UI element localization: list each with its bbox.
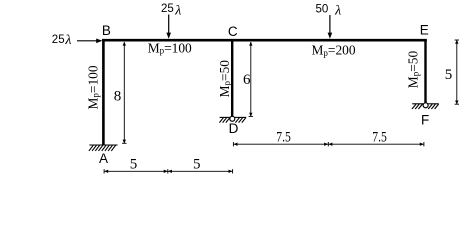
load 25λ vertical on BC bbox=[168, 15, 170, 35]
svg-text:Mp=200: Mp=200 bbox=[312, 43, 356, 58]
svg-text:λ: λ bbox=[64, 33, 71, 48]
load 50λ vertical on CE bbox=[329, 15, 331, 35]
svg-text:Mp=100: Mp=100 bbox=[148, 41, 192, 56]
svg-text:7.5: 7.5 bbox=[372, 129, 387, 145]
svg-text:5: 5 bbox=[445, 67, 453, 83]
svg-text:5: 5 bbox=[193, 157, 201, 173]
svg-text:25: 25 bbox=[52, 34, 65, 46]
svg-text:6: 6 bbox=[243, 72, 251, 88]
svg-text:50: 50 bbox=[316, 3, 329, 15]
svg-text:Mp=100: Mp=100 bbox=[85, 65, 100, 109]
column A-B bbox=[102, 39, 105, 145]
fixed support at A bbox=[89, 145, 118, 151]
svg-text:Mp=50: Mp=50 bbox=[405, 51, 420, 89]
column C-D bbox=[231, 39, 233, 116]
pin support at F bbox=[412, 104, 439, 109]
dimension 6 (middle column) bbox=[249, 42, 253, 116]
beam B-C-E bbox=[102, 39, 427, 42]
svg-text:25: 25 bbox=[161, 3, 174, 15]
dimension 8 (left column) bbox=[122, 42, 126, 143]
svg-text:F: F bbox=[421, 113, 429, 128]
svg-text:E: E bbox=[420, 22, 429, 37]
svg-text:7.5: 7.5 bbox=[276, 129, 291, 145]
pin support at D bbox=[219, 117, 246, 122]
svg-text:A: A bbox=[99, 151, 108, 166]
load 25λ horizontal at B bbox=[77, 40, 99, 42]
svg-text:5: 5 bbox=[130, 157, 138, 173]
svg-text:B: B bbox=[102, 23, 111, 38]
dimension 5 (right column) bbox=[455, 40, 459, 104]
svg-text:λ: λ bbox=[334, 4, 341, 19]
svg-text:8: 8 bbox=[114, 88, 122, 104]
column E-F bbox=[424, 39, 426, 103]
dimension 5 / 5 (A baseline) bbox=[104, 169, 233, 173]
dimension 7.5 / 7.5 (D to F) bbox=[233, 142, 424, 146]
svg-text:λ: λ bbox=[174, 3, 181, 18]
svg-text:D: D bbox=[229, 121, 239, 136]
svg-text:C: C bbox=[228, 24, 238, 39]
svg-text:Mp=50: Mp=50 bbox=[217, 60, 232, 98]
